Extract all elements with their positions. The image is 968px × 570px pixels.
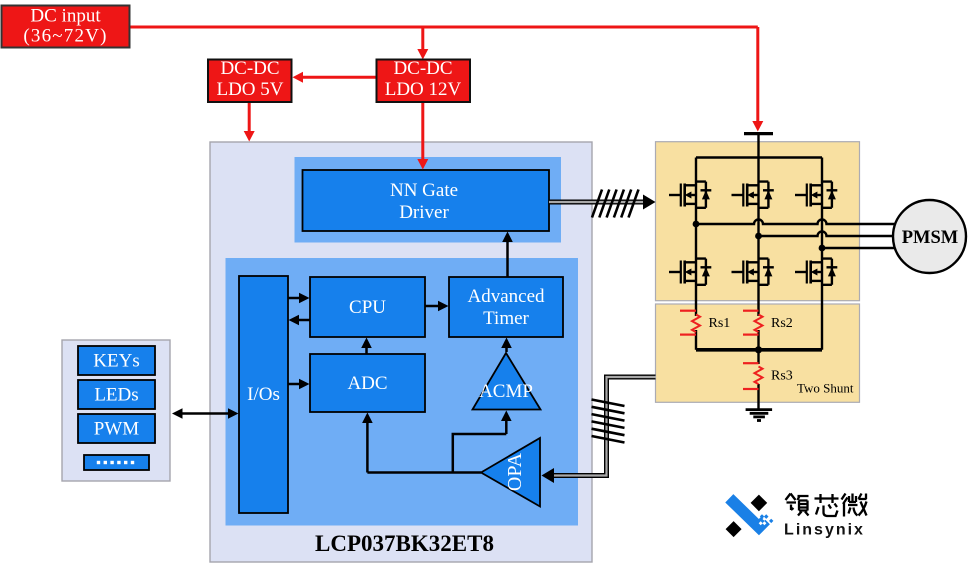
svg-text:DC-DC: DC-DC	[220, 58, 279, 79]
svg-text:LEDs: LEDs	[94, 385, 138, 406]
svg-text:ACMP: ACMP	[479, 381, 533, 402]
svg-text:Rs2: Rs2	[771, 316, 793, 331]
svg-text:I/Os: I/Os	[247, 384, 280, 405]
svg-text:LCP037BK32ET8: LCP037BK32ET8	[315, 531, 494, 556]
svg-text:ADC: ADC	[347, 373, 387, 394]
svg-text:PWM: PWM	[94, 419, 140, 440]
svg-text:CPU: CPU	[349, 297, 386, 318]
svg-text:Advanced: Advanced	[467, 286, 545, 307]
svg-text:Rs1: Rs1	[709, 316, 731, 331]
svg-text:NN Gate: NN Gate	[390, 180, 458, 201]
svg-text:DC-DC: DC-DC	[393, 58, 452, 79]
svg-text:OPA: OPA	[504, 452, 526, 491]
svg-text:Driver: Driver	[399, 202, 449, 223]
svg-text:DC input: DC input	[30, 6, 101, 27]
svg-text:LDO 5V: LDO 5V	[216, 79, 283, 100]
svg-text:KEYs: KEYs	[93, 351, 139, 372]
svg-text:Timer: Timer	[483, 308, 529, 329]
svg-text:Two Shunt: Two Shunt	[797, 381, 854, 396]
svg-text:LDO 12V: LDO 12V	[385, 79, 462, 100]
svg-text:Rs3: Rs3	[771, 369, 793, 384]
svg-text:Linsynix: Linsynix	[784, 522, 865, 539]
svg-text:(36~72V): (36~72V)	[23, 26, 107, 47]
svg-text:PMSM: PMSM	[902, 228, 959, 248]
